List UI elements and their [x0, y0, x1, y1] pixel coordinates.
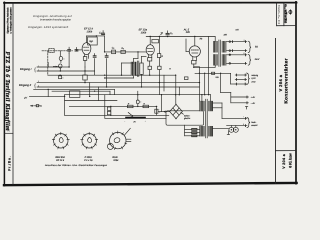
wire V3 cathode down	[193, 64, 195, 67]
secondary group A wire 1	[227, 41, 247, 43]
left strip divider	[4, 132, 13, 134]
T3 secondary top feed	[210, 95, 212, 101]
T2 primary feed from rail	[214, 37, 216, 42]
svg-text:μV: μV	[23, 96, 27, 99]
wire x94.6 vertical	[94, 59, 96, 76]
T1 connections	[133, 58, 135, 61]
main HT rail	[146, 36, 215, 38]
resistor on V1 cathode line	[83, 75, 87, 80]
arrow mark on rail	[161, 33, 163, 35]
group D wire 1	[231, 96, 249, 98]
tube V3 cathode legs	[192, 57, 194, 61]
wire bus y73.3	[195, 72, 231, 74]
T3 primary top feed	[201, 95, 203, 101]
power transformer T3 primary	[199, 101, 204, 111]
wire x159.4 vertical	[158, 83, 160, 95]
attenuator arrow mark	[30, 105, 41, 107]
resistor Rk3	[192, 60, 196, 64]
wire x112.4 vertical	[48, 95, 64, 97]
svg-text:Eingangstr. Anschaltung auf: Eingangstr. Anschaltung auf	[33, 15, 72, 18]
wire x220.6 step to group D	[220, 73, 222, 92]
group C brace	[247, 73, 250, 84]
svg-text:Fr./Bn.: Fr./Bn.	[7, 156, 11, 171]
svg-text:100k: 100k	[87, 31, 93, 34]
svg-text:Netz-: Netz-	[251, 121, 256, 124]
right strip inner line	[275, 39, 277, 184]
T3 secondary to terminals	[213, 102, 222, 104]
group B brace	[248, 54, 251, 65]
resistor R4	[121, 50, 125, 53]
wire cathode V1 down	[84, 60, 86, 67]
wire Eingang I line 1	[37, 66, 60, 68]
bus wire y94.7	[65, 94, 211, 96]
title block trademark symbol	[289, 9, 292, 14]
fuse wire 1	[185, 128, 200, 130]
coupling wire	[105, 51, 147, 53]
svg-text:REN 904: REN 904	[55, 156, 65, 159]
resistor on ladder left	[127, 105, 133, 108]
border frame bottom	[4, 183, 297, 185]
capacitor on bus y75	[59, 76, 62, 79]
secondary group B wire 1	[227, 54, 247, 56]
hum potentiometer bar	[125, 117, 146, 119]
svg-text:Konzertverstärker: Konzertverstärker	[284, 58, 289, 103]
svg-text:F 2 x 18: F 2 x 18	[84, 159, 93, 162]
tube socket S1	[54, 134, 68, 148]
group D wire 2	[231, 102, 249, 104]
svg-text:Anschluss der Röhren- bzw. Gle: Anschluss der Röhren- bzw. Gleichrichter…	[44, 164, 108, 167]
svg-text:12k: 12k	[186, 31, 191, 34]
svg-text:100k: 100k	[141, 32, 147, 35]
wire x106.6 vertical	[106, 59, 108, 87]
output transformer T2 primary	[213, 41, 218, 53]
tube V2 cathode legs	[148, 55, 150, 58]
tube V1	[82, 43, 91, 55]
wire vertical input node	[59, 51, 61, 56]
mains connector symbol	[229, 127, 234, 132]
HT rail right drop	[208, 37, 210, 95]
power transformer T3 core	[205, 99, 207, 138]
group E wire 2	[227, 125, 247, 127]
wire T2 return down	[204, 73, 206, 94]
secondary group A wire 2	[227, 50, 247, 52]
wire T3 secondary to connector	[213, 128, 229, 130]
svg-text:9: 9	[244, 39, 245, 42]
bus wire y100.5	[65, 100, 117, 102]
svg-text:Innenseite Anordnungsplan: Innenseite Anordnungsplan	[40, 19, 72, 22]
wire T2 bottom to V3 cathode	[194, 66, 215, 68]
group E brace	[247, 117, 250, 127]
interstage transformer T1	[131, 62, 137, 76]
shield dashed vertical	[47, 51, 49, 75]
wire drop to coupling line	[104, 36, 106, 52]
wire x230.8 vertical	[230, 97, 232, 103]
svg-text:FTZ Tb 6 Tarifteil Klangfilm: FTZ Tb 6 Tarifteil Klangfilm	[4, 52, 11, 131]
input transformer box	[49, 48, 54, 52]
svg-text:V 204 a: V 204 a	[278, 74, 283, 91]
capacitor Ce2	[59, 64, 62, 68]
capacitor C3	[112, 50, 116, 54]
svg-text:21Ω: 21Ω	[250, 80, 255, 83]
svg-text:V 204 a: V 204 a	[282, 153, 286, 169]
svg-text:6 Kl. bzw: 6 Kl. bzw	[289, 153, 293, 168]
fuse wire 2	[185, 132, 200, 134]
resistor R7 beside V2	[157, 54, 160, 58]
wire x179.3 vertical	[178, 87, 180, 95]
grid resistor box Rg1	[88, 37, 98, 45]
capacitor C1b	[75, 49, 78, 51]
svg-text:8: 8	[243, 123, 244, 126]
bus wire y75	[48, 74, 175, 76]
switch box	[70, 91, 80, 98]
group C stub 3	[235, 83, 246, 85]
wire cathode V1 node	[84, 67, 86, 75]
title block column Siemens logo	[285, 3, 288, 24]
svg-text:mässig: mässig	[251, 74, 258, 77]
resistor R14	[184, 77, 188, 80]
wire x159.4 from rail	[158, 37, 160, 54]
bridge top feed	[175, 75, 177, 104]
secondary group B wire 2	[227, 62, 247, 64]
group E wire 1	[222, 117, 247, 119]
left strip small print	[6, 7, 12, 34]
resistor on bus y73.3	[212, 72, 215, 74]
wire x89.7 vertical	[89, 83, 91, 97]
bus wire y91	[52, 90, 110, 92]
svg-text:2mV: 2mV	[254, 58, 260, 61]
earth mark	[245, 106, 247, 108]
wire x137.8 long vertical	[137, 91, 139, 100]
svg-text:1064: 1064	[113, 159, 119, 162]
group C stub 2	[235, 79, 246, 81]
wire x104.8 vertical	[104, 95, 106, 119]
bridge rectifier	[170, 104, 183, 118]
tube V2	[146, 45, 154, 55]
wire x230.6 down to group C	[230, 73, 232, 84]
svg-text:RGN: RGN	[112, 156, 117, 159]
svg-text:11: 11	[243, 52, 245, 55]
svg-text:Eingang I: Eingang I	[20, 68, 32, 71]
tube V3	[189, 46, 200, 57]
svg-text:gleichr.: gleichr.	[184, 117, 191, 120]
capacitor pair left of ladder	[110, 106, 112, 115]
title block column Apparat 96	[278, 4, 280, 24]
wire grid V1	[75, 50, 77, 51]
group A brace	[248, 41, 251, 52]
wire x98.4 vertical	[97, 87, 99, 101]
wire x164 vertical	[163, 75, 165, 91]
wire T1 top left	[122, 62, 134, 64]
svg-text:0,2V: 0,2V	[251, 77, 256, 80]
tube V1 cathode legs	[84, 54, 86, 57]
svg-text:C₅: C₅	[170, 32, 173, 35]
svg-text:Eigentum d. Firma. Nachdruck: Eigentum d. Firma. Nachdruck	[6, 7, 9, 34]
title block top-right line 1	[276, 3, 278, 26]
resistor on ladder right	[143, 105, 149, 108]
title block top-right bottom line	[277, 25, 296, 27]
arrow mark into cap	[54, 66, 58, 68]
power unit box	[166, 111, 204, 125]
capacitor top x94.6	[93, 56, 96, 58]
output transformer T2 secondary	[222, 41, 227, 53]
fuse wire 3	[185, 135, 200, 137]
bottom-right block divider	[276, 150, 297, 152]
capacitor Ce1	[59, 56, 62, 60]
svg-text:{: {	[34, 83, 37, 90]
svg-text:5Ω: 5Ω	[255, 45, 258, 48]
svg-text:EF 12 k: EF 12 k	[56, 159, 65, 162]
group C stub 1	[235, 74, 246, 76]
capacitor C1a	[68, 49, 71, 51]
svg-text:{: {	[34, 67, 37, 74]
capacitor right of ladder	[155, 106, 157, 115]
tube socket S2	[82, 134, 96, 148]
screen resistor box 10k	[152, 40, 159, 43]
fuse feed vertical	[184, 125, 186, 136]
wire to bridge left	[158, 111, 169, 113]
tube socket S3	[110, 132, 126, 148]
wire mic feed	[29, 95, 48, 97]
svg-text:Eingangstr. 14/15 symmetrisch: Eingangstr. 14/15 symmetrisch	[28, 26, 68, 29]
power transformer T3 secondary	[208, 101, 213, 111]
svg-text:R₄: R₄	[121, 47, 124, 50]
wire Eingang II line 2	[37, 86, 199, 88]
capacitor C2	[102, 32, 105, 34]
svg-text:F 2018: F 2018	[85, 156, 93, 159]
left strip inner line	[12, 3, 14, 185]
wire anode rail V1	[87, 35, 105, 37]
title block top-right line 2	[283, 3, 285, 26]
heater ladder rail top	[69, 105, 157, 107]
output transformer T2 core	[218, 40, 220, 66]
wire Eingang I line 2	[37, 70, 95, 72]
svg-text:u. Weitergabe nicht gestattet: u. Weitergabe nicht gestattet	[9, 7, 12, 33]
border frame top	[4, 2, 297, 4]
resistor Rk2	[148, 58, 152, 61]
svg-text:C₂: C₂	[99, 31, 102, 34]
capacitor C5 on rail	[166, 32, 169, 34]
capacitor top x106.6	[105, 56, 108, 58]
wire Eingang II line 1	[37, 82, 199, 84]
ladder bottom rail	[65, 114, 169, 116]
resistor Rk1	[83, 57, 87, 61]
svg-text:+ 4V: + 4V	[251, 96, 256, 99]
svg-text:anschl.: anschl.	[251, 124, 258, 127]
svg-text:Eingang II: Eingang II	[19, 84, 31, 87]
wire grid V3 from left	[186, 50, 189, 52]
capacitor C8 oval	[136, 100, 139, 104]
wire vertical x69	[68, 53, 70, 67]
border frame right	[295, 2, 297, 184]
svg-text:− 4V: − 4V	[251, 102, 256, 105]
svg-text:C₃: C₃	[112, 47, 115, 50]
border frame left	[3, 2, 5, 185]
svg-text:7: 7	[243, 116, 244, 119]
T2 primary bottom down	[214, 66, 216, 68]
wire x161.5 vertical to mains	[161, 95, 163, 112]
stub below connector	[227, 131, 229, 135]
shield dashed horizontal	[42, 50, 73, 52]
svg-text:mV: mV	[236, 29, 240, 32]
